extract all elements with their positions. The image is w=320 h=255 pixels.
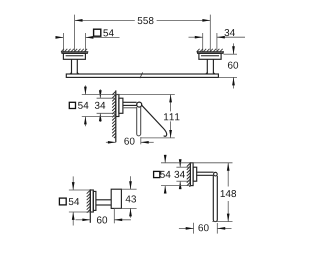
towel bar: right post wall hatch [197, 49, 223, 52]
spare holder: 148 arrow top [227, 163, 230, 171]
towel bar: right post stem [207, 59, 213, 74]
paper holder: 111 arrow top [169, 95, 172, 103]
paper holder: arm [123, 102, 137, 105]
paper holder: dimension text 34 [95, 102, 105, 109]
robe hook: dimension text 54 [69, 198, 79, 205]
robe hook: 43 extension line bottom [114, 207, 136, 209]
robe hook: 43 extension line top [121, 188, 136, 190]
paper holder: cover flap [141, 105, 167, 137]
towel bar: 60 arrow bottom [233, 77, 235, 88]
robe hook: body [93, 191, 96, 210]
paper holder: dimension text 54 [78, 102, 88, 109]
robe hook: square symbol of 54 label [59, 198, 66, 205]
spare holder: extension line body top [176, 166, 190, 168]
paper holder: 34 arrow bottom [99, 113, 101, 122]
robe hook: 60 leader line left with arrow [76, 219, 91, 221]
robe hook: 54 extension line bottom [69, 211, 90, 213]
spare holder: extension line flange bottom [161, 185, 190, 187]
towel bar: arrow left of 558 [75, 19, 83, 22]
paper holder: square symbol of 54 label [69, 102, 75, 108]
towel bar: 54 leader line left with arrow [56, 36, 63, 38]
towel bar: 34 leader line left with arrow [189, 36, 203, 38]
towel bar: 60 arrow top [233, 43, 235, 54]
towel bar: extension line left (558) [74, 15, 76, 52]
spare holder: wall hatch [187, 163, 190, 186]
towel bar: left post wall hatch [61, 49, 87, 52]
spare holder: dimension text 148 [221, 190, 236, 197]
towel bar: 54 extension line right [85, 33, 87, 52]
paper holder: arm lower edge [123, 107, 137, 109]
paper holder: extension line pin bottom [141, 137, 175, 139]
paper holder: extension line body top [97, 97, 116, 99]
towel bar: 60 extension line top right [224, 53, 238, 55]
spare holder: flange [190, 163, 193, 186]
towel bar: 34 leader line right with arrow [217, 36, 245, 38]
towel bar: left post body inner line [66, 55, 84, 57]
spare holder: 60 leader line right with arrow [217, 227, 231, 229]
towel bar: bar rail [66, 74, 218, 77]
paper holder: wall line [115, 90, 117, 142]
towel bar: right post body [199, 53, 221, 59]
paper holder: 111 arrow bottom [169, 130, 172, 138]
paper holder: 34 arrow top [99, 89, 101, 98]
robe hook: stem [96, 200, 111, 205]
robe hook: 54 extension line top [69, 189, 90, 191]
robe hook: wall hatch [87, 190, 90, 213]
paper holder: body [119, 98, 123, 113]
spare holder: 60 leader line left with arrow [179, 227, 194, 229]
robe hook: 60 leader line right with arrow [114, 219, 131, 221]
spare holder: wall line [189, 162, 191, 186]
towel bar: left post body [63, 53, 85, 59]
spare holder: 60 extension line right [216, 223, 218, 234]
spare holder: extension line pin bottom [212, 221, 232, 223]
towel bar: dimension line 558 [75, 19, 211, 21]
towel bar: 34 extension line right [216, 33, 218, 52]
robe hook: 54 arrow top [72, 176, 74, 190]
towel bar: 34 extension line left [202, 33, 204, 52]
towel bar: left post flange [62, 52, 87, 54]
paper holder: 54 arrow bottom [84, 117, 86, 127]
spare holder: pivot circle [214, 172, 218, 176]
spare holder: extension line flange top / 148 top [161, 162, 233, 164]
spare holder: 54 arrow bottom [164, 186, 166, 194]
towel bar: extension line right (558) [209, 15, 211, 52]
paper holder: roll pin [137, 107, 141, 136]
paper holder: extension line body bottom [97, 112, 116, 114]
towel bar: square symbol of 54 label [94, 29, 101, 36]
spare holder: square symbol of 54 label [154, 171, 160, 177]
towel bar: 54 leader line right with arrow [86, 36, 120, 38]
robe hook: wall line [89, 189, 91, 223]
towel bar: dimension text 558 [138, 17, 154, 24]
spare holder: body [193, 167, 197, 181]
robe hook: dimension text 43 [126, 195, 137, 202]
paper holder: dimension text 60 [124, 138, 134, 145]
paper holder: 54 arrow top [84, 85, 86, 94]
towel bar: dimension text 60 [228, 62, 238, 69]
spare holder: dimension text 34 [174, 171, 184, 178]
towel bar: right post body inner line [201, 55, 219, 57]
towel bar: 60 extension line bottom right [219, 76, 237, 78]
towel bar: left post stem [72, 59, 78, 74]
towel bar: right post flange [198, 52, 223, 54]
paper holder: 60 leader line right with arrow [141, 141, 154, 143]
towel bar: arrow right of 558 [202, 19, 210, 22]
paper holder: extension line flange bottom [82, 116, 116, 118]
spare holder: 148 arrow bottom [227, 214, 230, 222]
robe hook: 54 arrow bottom [72, 212, 74, 226]
spare holder: dimension text 54 [160, 171, 170, 178]
towel bar: left post wall line [61, 51, 88, 53]
spare holder: 34 arrow top [179, 159, 181, 167]
paper holder: flange [116, 95, 119, 117]
spare holder: 148 dimension line [227, 163, 229, 222]
towel bar: dimension text 54 [103, 29, 113, 36]
paper holder: 60 leader line left with arrow [106, 141, 116, 143]
paper holder: wall hatch [112, 92, 115, 139]
towel bar: right post wall line [197, 51, 225, 53]
spare holder: pin [213, 176, 217, 222]
towel bar: dimension text 34 (right post) [225, 29, 235, 36]
robe hook: 60 extension line right [113, 208, 115, 223]
robe hook: dimension text 60 [97, 216, 107, 223]
robe hook: knob [111, 189, 121, 208]
spare holder: 34 arrow bottom [179, 181, 181, 189]
robe hook: 43 arrow bottom [130, 208, 132, 217]
robe hook: flange [90, 190, 93, 212]
paper holder: pivot circle [137, 102, 142, 107]
spare holder: arm [196, 172, 213, 175]
paper holder: 60 extension line right [140, 137, 142, 144]
spare holder: extension line body bottom [176, 180, 190, 182]
towel bar: stem fillets [70, 72, 216, 74]
towel bar: bar break mark [140, 72, 143, 78]
spare holder: dimension text 60 [198, 224, 208, 231]
spare holder: 54 arrow top [164, 155, 166, 163]
paper holder: 111 dimension line [170, 95, 172, 138]
robe hook: 43 arrow top [130, 176, 132, 189]
paper holder: dimension text 111 [164, 113, 179, 120]
paper holder: extension line flange top / 111 top [82, 94, 175, 96]
towel bar: 54 extension line left [62, 33, 64, 52]
spare holder: 60 extension line left [193, 223, 195, 234]
